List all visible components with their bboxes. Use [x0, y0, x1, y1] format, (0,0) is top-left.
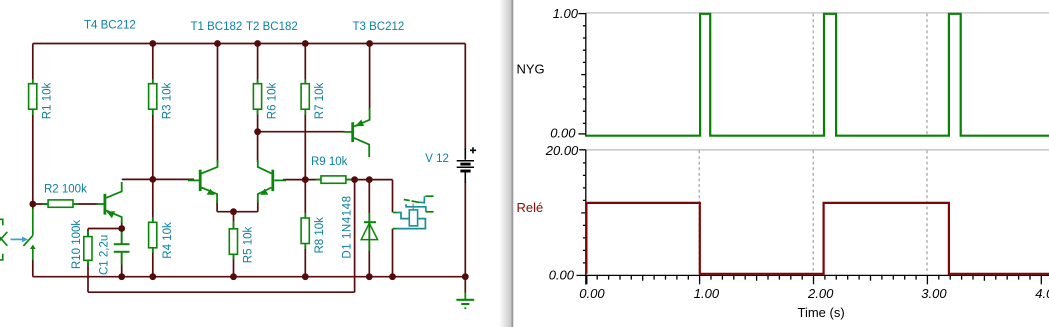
- battery V1 12V: [457, 147, 476, 182]
- resistor R10: [84, 231, 92, 265]
- wire R7 column: [304, 44, 306, 180]
- svg-text:R2 100k: R2 100k: [44, 183, 87, 195]
- svg-text:R4 10k: R4 10k: [162, 222, 174, 259]
- wire R5 column: [233, 212, 235, 277]
- svg-text:R5 10k: R5 10k: [243, 227, 255, 264]
- wire right rail V12 column: [464, 44, 466, 277]
- bottom plot dashed gridline t=2: [812, 151, 814, 275]
- svg-text:0.00: 0.00: [549, 267, 575, 282]
- bottom plot gray frame line: [586, 149, 1049, 151]
- wire R6 / T2 collector column: [257, 44, 259, 163]
- svg-text:0.00: 0.00: [550, 125, 576, 140]
- transistor T2: [258, 160, 286, 203]
- svg-text:C1 2,2u: C1 2,2u: [99, 235, 111, 275]
- wire ground stem right: [464, 277, 466, 293]
- svg-text:1.00: 1.00: [553, 6, 579, 21]
- resistor R1: [29, 79, 37, 115]
- diode D1: [361, 213, 377, 251]
- wire T1 collector column: [217, 44, 219, 163]
- resistor R5: [229, 221, 237, 260]
- resistor R6: [253, 79, 261, 115]
- svg-text:R1 10k: R1 10k: [42, 83, 54, 120]
- svg-text:3.00: 3.00: [921, 286, 947, 301]
- svg-text:1.00: 1.00: [694, 286, 720, 301]
- top plot y-axis: [578, 13, 585, 137]
- svg-text:T4 BC212: T4 BC212: [84, 20, 136, 32]
- NYG green trace: [586, 14, 1049, 136]
- bottom plot dashed gridline t=1: [698, 151, 700, 275]
- svg-text:R8 10k: R8 10k: [314, 217, 326, 254]
- key actuation arrow: [11, 237, 28, 242]
- wire top supply rail: [33, 43, 466, 45]
- resistor R2: [43, 200, 79, 207]
- wire bottom ground rail: [33, 276, 466, 278]
- wire C1 column: [121, 229, 123, 277]
- wire R9 row to relay corner: [305, 179, 392, 181]
- svg-text:T2 BC182: T2 BC182: [246, 21, 298, 33]
- wire relay left lower: [392, 229, 394, 277]
- wire R3 column: [152, 44, 154, 180]
- svg-text:R9 10k: R9 10k: [311, 156, 348, 168]
- resistor R9: [316, 176, 351, 183]
- transistor T1: [188, 160, 218, 203]
- relay RL1 coil and contacts: [393, 196, 434, 228]
- wire R10 column: [87, 229, 89, 293]
- svg-text:Relé: Relé: [517, 200, 544, 215]
- wire left rail upper (R1 column): [32, 44, 34, 205]
- window divider shadow: [499, 0, 513, 327]
- resistor R3: [149, 79, 157, 115]
- wire emitter rail T1-T2: [217, 211, 258, 213]
- svg-text:T1 BC182: T1 BC182: [191, 21, 243, 33]
- svg-text:R10 100k: R10 100k: [71, 220, 83, 269]
- wire R10 top row: [88, 228, 122, 230]
- svg-text:0.00: 0.00: [579, 286, 605, 301]
- resistor R8: [301, 213, 309, 249]
- transistor T4: [97, 182, 122, 223]
- wire feedback column R9 right: [354, 180, 356, 293]
- svg-text:R6 10k: R6 10k: [267, 83, 279, 120]
- wire T4 collector to T1 base row: [122, 178, 194, 180]
- wire relay left upper: [392, 180, 394, 213]
- Rele dark red trace: [586, 203, 1049, 274]
- svg-text:T3 BC212: T3 BC212: [353, 21, 405, 33]
- svg-text:R7 10k: R7 10k: [314, 83, 326, 120]
- top plot dashed gridline t=2: [812, 14, 814, 134]
- wire T3 base row: [258, 131, 345, 133]
- top plot gray frame line: [586, 12, 1049, 14]
- transistor T3: [344, 108, 370, 157]
- svg-text:4.0: 4.0: [1035, 286, 1049, 301]
- wire R8 column: [304, 180, 306, 277]
- ground (right, main): [456, 293, 474, 309]
- capacitor C1: [114, 232, 130, 265]
- top plot dashed gridline t=3: [926, 14, 928, 134]
- svg-text:R3 10k: R3 10k: [162, 83, 174, 120]
- svg-text:Time (s): Time (s): [798, 305, 845, 320]
- wire R4 column: [152, 179, 154, 276]
- wire left rail lower (switch column): [32, 204, 34, 277]
- resistor R7: [301, 79, 309, 115]
- wire T1 emitter drop: [216, 200, 218, 212]
- key symbol (cut off at edge): [0, 219, 7, 260]
- bottom plot dashed gridline t=3: [926, 151, 928, 275]
- svg-text:NYG: NYG: [517, 62, 545, 77]
- svg-text:20.00: 20.00: [545, 143, 579, 158]
- switch S1: [23, 209, 35, 261]
- bottom plot x-axis with ticks: [586, 275, 1049, 284]
- svg-text:2.00: 2.00: [807, 286, 834, 301]
- wire R2 row: [33, 203, 98, 205]
- wire T2 base to R9 row: [283, 179, 305, 181]
- wire T3 emitter column: [369, 44, 371, 111]
- resistor R4: [149, 217, 157, 253]
- wire T4 emitter drop: [121, 221, 123, 229]
- wire T2 emitter drop: [257, 200, 259, 212]
- svg-text:D1 1N4148: D1 1N4148: [342, 195, 354, 258]
- bottom plot y-axis: [577, 150, 586, 285]
- svg-text:V 12: V 12: [425, 153, 449, 165]
- wire D1 column: [368, 180, 370, 277]
- wire second bottom rail: [88, 291, 355, 293]
